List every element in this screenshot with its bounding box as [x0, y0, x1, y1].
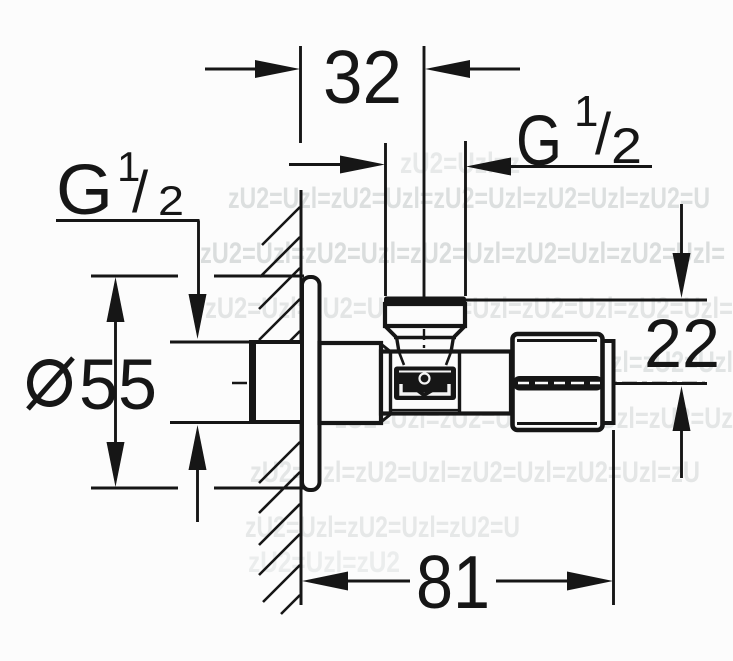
port neck right — [451, 337, 454, 352]
arrow into port right + leader under G 1/2 — [503, 165, 652, 168]
svg-text:22: 22 — [644, 305, 720, 382]
hub flange — [320, 343, 382, 423]
watermark pattern — [200, 147, 733, 579]
arrow right of 32 — [462, 68, 520, 71]
svg-text:G: G — [516, 102, 562, 181]
dimension line left segment + arrow — [338, 580, 410, 583]
arrow up to axis — [680, 425, 683, 478]
extension line pipe bottom — [170, 421, 250, 424]
neck flare to element right — [446, 352, 451, 365]
arrow up to pipe bottom — [196, 466, 199, 522]
dimension line with outward arrows — [114, 300, 117, 462]
extension line bottom — [91, 487, 178, 490]
main body — [381, 352, 511, 414]
arrow left of 32 — [205, 68, 262, 71]
extension line right (from nut) — [612, 430, 615, 605]
neck flare to element left — [399, 352, 404, 365]
svg-text:zU2=Uzl=zU2=Uzl=zU2=Uzl=zU2=Uz: zU2=Uzl=zU2=Uzl=zU2=Uzl=zU2=Uzl=zU2=Uzl= — [200, 237, 725, 270]
wall line — [300, 190, 303, 605]
body inner line left — [389, 352, 392, 413]
hatching — [259, 207, 300, 614]
centerline through slot (white) — [518, 382, 600, 385]
nut chamfer line top — [517, 339, 597, 342]
svg-text:G: G — [56, 151, 113, 230]
element detail: U channel — [401, 384, 449, 394]
arrow down to port top line — [680, 204, 683, 262]
extension line top of port — [466, 299, 707, 302]
extension line port left — [384, 143, 387, 296]
dimension line right segment + arrow — [496, 580, 572, 583]
svg-text:81: 81 — [416, 540, 490, 624]
extension line port right — [464, 141, 467, 296]
svg-text:32: 32 — [323, 35, 402, 119]
label Ø55 — [28, 346, 157, 425]
port neck left — [397, 337, 400, 352]
axis dash-dot inside port — [423, 305, 425, 348]
extension/axis line port center — [423, 46, 426, 297]
escutcheon — [302, 277, 320, 490]
extension line wall top — [299, 46, 302, 143]
body inner line right — [458, 352, 461, 413]
element detail: screw circle — [420, 374, 430, 384]
label G 1/2 (left) — [56, 143, 184, 230]
hub-body chamfer top — [381, 344, 391, 352]
port taper right — [454, 326, 465, 337]
regulating element (black) — [394, 367, 456, 401]
svg-text:2: 2 — [158, 177, 184, 224]
nut slot — [513, 376, 604, 391]
compression nut — [513, 334, 603, 430]
svg-text:/: / — [132, 160, 149, 225]
top port thread — [385, 304, 465, 326]
extension line top — [91, 275, 178, 278]
leader underline — [56, 219, 200, 222]
pipe thread end (thick left edge) — [249, 341, 256, 423]
body lower inner line — [391, 409, 459, 411]
nut collar (right end) — [600, 341, 614, 423]
port taper left — [385, 326, 396, 337]
svg-text:/: / — [595, 102, 612, 167]
svg-text:55: 55 — [79, 346, 157, 425]
label G 1/2 (right) — [516, 87, 642, 181]
port collar line — [394, 336, 456, 340]
nut chamfer line bottom — [517, 422, 597, 425]
leader drop + arrow down to pipe top — [197, 221, 200, 301]
hub-body chamfer bottom — [381, 414, 391, 422]
top port end cap (thick bar) — [384, 297, 466, 305]
extension line pipe top — [170, 341, 250, 344]
arrow into port left — [289, 163, 348, 166]
pipe through wall — [251, 342, 302, 422]
element detail: top line — [399, 371, 451, 373]
extension line axis right — [610, 382, 707, 385]
